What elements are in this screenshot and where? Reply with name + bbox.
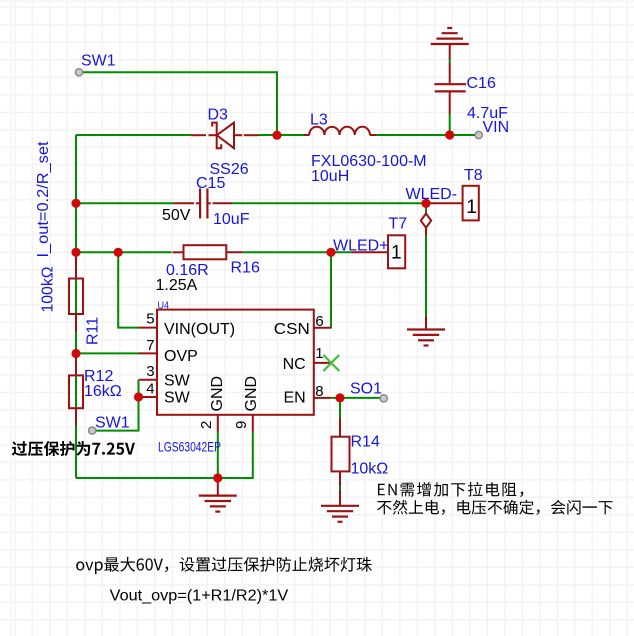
- svg-text:5: 5: [146, 311, 154, 328]
- annotation EN pulldown line1: [378, 482, 523, 497]
- pin stub below R11: [75, 314, 77, 332]
- svg-text:100kΩ: 100kΩ: [40, 266, 57, 312]
- port dot port VIN: [475, 131, 482, 138]
- wire pin2 to ground node: [217, 432, 219, 478]
- inductor L3: [309, 127, 370, 135]
- resistor R12: [69, 375, 83, 408]
- svg-text:9: 9: [233, 421, 250, 429]
- pin R14 top: [339, 418, 341, 437]
- wire EN node down to R14: [339, 398, 341, 419]
- pin D3 left (cathode side): [191, 134, 206, 136]
- svg-text:GND: GND: [243, 376, 260, 412]
- wire C15 net from left rail: [76, 202, 174, 204]
- svg-text:R14: R14: [351, 434, 380, 451]
- pin 2 GND stub: [217, 415, 219, 432]
- junction node VIN(OUT) tap: [114, 248, 123, 257]
- wire WLED- node down to diamond: [425, 203, 427, 213]
- svg-text:C16: C16: [467, 75, 496, 92]
- svg-text:VIN(OUT): VIN(OUT): [164, 321, 235, 338]
- wire SW1 net: from port SW1 right then down to diode node: [79, 72, 277, 135]
- pin C15 left: [174, 202, 195, 204]
- pin 7 OVP: [139, 352, 158, 354]
- svg-text:LGS63042EP: LGS63042EP: [158, 439, 221, 455]
- junction node OVP tap: [71, 349, 80, 358]
- svg-text:Vout_ovp=(1+R1/R2)*1V: Vout_ovp=(1+R1/R2)*1V: [110, 588, 289, 605]
- svg-text:1: 1: [391, 243, 402, 264]
- wire C15 to WLED- node: [232, 202, 426, 204]
- annotation ovp max 60V: [76, 557, 372, 574]
- ground (WLED- branch): [407, 330, 445, 346]
- svg-text:EN: EN: [283, 390, 305, 407]
- annotation EN pulldown line2: [377, 500, 612, 515]
- svg-text:4: 4: [146, 381, 154, 398]
- wire WLED+ node down to CSN pin: [330, 252, 332, 327]
- capacitor C15: [200, 188, 207, 218]
- svg-text:I_out=0.2/R_set: I_out=0.2/R_set: [35, 141, 52, 258]
- svg-text:10uH: 10uH: [311, 168, 349, 185]
- wire OVP from divider tap: [76, 352, 140, 354]
- wire R16 net from left rail: [76, 251, 172, 253]
- pin 5 VIN(OUT): [139, 327, 158, 329]
- junction node GND return: [213, 473, 222, 482]
- port dot port SW1 top: [75, 69, 82, 76]
- svg-text:WLED-: WLED-: [406, 186, 458, 203]
- wire from left rail to D3 anode: [76, 134, 191, 136]
- wire node to L3 left pin: [277, 134, 304, 136]
- wire VIN(OUT) branch from R16 net: [118, 252, 139, 327]
- junction node left rail/C15: [71, 199, 80, 208]
- svg-text:1.25A: 1.25A: [156, 277, 198, 294]
- pin R16 left: [173, 251, 184, 253]
- port dot port SO1: [380, 395, 387, 402]
- wire EN node to SO1 port: [331, 397, 384, 399]
- svg-text:L3: L3: [310, 111, 328, 128]
- no-connect X on pin 1: [323, 355, 339, 371]
- earth ground (top, flipped): [431, 28, 469, 44]
- svg-text:50V: 50V: [162, 207, 191, 224]
- wire C16 lower pin to VIN node (green part): [449, 113, 451, 135]
- svg-text:U4: U4: [158, 300, 170, 311]
- IC U4 LGS63042EP body: [157, 310, 314, 415]
- pin L3 left: [304, 134, 310, 136]
- svg-text:WLED+: WLED+: [333, 237, 389, 254]
- svg-text:1: 1: [315, 345, 323, 362]
- junction node VIN/C16: [445, 130, 454, 139]
- pin 8 EN: [314, 397, 331, 399]
- test point T7: [388, 235, 405, 268]
- pin R14 bottom: [339, 471, 341, 486]
- junction node WLED+/CSN: [326, 248, 335, 257]
- pin 3 SW: [139, 379, 158, 381]
- wire L3 right pin to VIN port: [376, 134, 479, 136]
- svg-text:R16: R16: [231, 260, 260, 277]
- ground (R14): [321, 506, 359, 522]
- svg-text:SW1: SW1: [95, 415, 130, 432]
- pin 6 CSN: [314, 327, 332, 329]
- svg-text:OVP: OVP: [164, 348, 198, 365]
- wire bottom-left return rail: [76, 477, 218, 479]
- pin D3 right: [234, 134, 242, 136]
- pin C16 top: [449, 63, 451, 84]
- svg-text:SO1: SO1: [350, 381, 382, 398]
- diode D3 (Schottky SS26): [212, 122, 234, 150]
- resistor R14: [332, 437, 350, 472]
- wire diamond down to ground: [425, 236, 427, 316]
- annotation OVP is 7.25V (bold): [12, 441, 135, 456]
- svg-text:3: 3: [146, 363, 154, 380]
- resistor R11: [69, 279, 83, 315]
- svg-text:SW: SW: [164, 373, 191, 390]
- svg-text:C15: C15: [196, 175, 225, 192]
- svg-text:16kΩ: 16kΩ: [84, 383, 122, 400]
- svg-text:T8: T8: [464, 167, 483, 184]
- svg-text:GND: GND: [209, 376, 226, 412]
- pin stub above R12: [75, 357, 77, 376]
- left vertical rail x=76: [75, 135, 77, 478]
- svg-text:T7: T7: [389, 216, 408, 233]
- pin ground stem (WLED- branch): [425, 316, 427, 330]
- svg-text:CSN: CSN: [274, 321, 310, 338]
- pin 4 SW: [139, 396, 158, 398]
- pin T7 connector: [352, 251, 388, 253]
- pin 1 NC stub: [314, 362, 332, 364]
- ground (U4 GND): [199, 496, 237, 512]
- svg-text:D3: D3: [208, 107, 229, 124]
- svg-text:1: 1: [466, 197, 477, 218]
- pin R16 right: [226, 251, 242, 253]
- wire D3 cathode to L3 node: [259, 134, 278, 136]
- svg-text:R11: R11: [84, 317, 101, 345]
- pin stub below R12: [75, 408, 77, 425]
- junction node D3/L3/SW1: [272, 131, 281, 140]
- svg-text:VIN: VIN: [483, 119, 510, 136]
- wire C16 to earth (green dash): [449, 59, 451, 64]
- diamond (LED string marker): [421, 214, 431, 228]
- svg-text:8: 8: [315, 383, 323, 400]
- svg-text:6: 6: [315, 313, 323, 330]
- pin below diamond: [425, 228, 427, 236]
- svg-text:SW1: SW1: [81, 53, 116, 70]
- pin 9 GND stub: [252, 415, 254, 432]
- pin C15 right: [208, 202, 210, 204]
- pin T8 connector: [426, 202, 463, 204]
- svg-text:7: 7: [146, 337, 154, 354]
- port dot port SW1 bottom: [89, 427, 96, 434]
- pin ground stem (R14): [339, 490, 341, 506]
- pin earth stem top: [449, 44, 451, 59]
- svg-text:10kΩ: 10kΩ: [351, 461, 389, 478]
- wire SW1 bottom net: [92, 380, 138, 431]
- pin C16 bottom: [449, 92, 451, 113]
- junction node SW pin4: [134, 392, 143, 401]
- wire R14 to ground (green dash): [339, 486, 341, 491]
- capacitor C16: [434, 84, 466, 91]
- svg-text:2: 2: [198, 421, 215, 429]
- wire R16 to WLED+ node: [242, 251, 352, 253]
- svg-text:10uF: 10uF: [213, 211, 250, 228]
- pin L3 right: [370, 134, 376, 136]
- pin stub above R11: [75, 252, 77, 278]
- resistor R16: [184, 245, 227, 259]
- pin ground stem (U4 GND): [217, 478, 219, 496]
- junction node EN/R14: [335, 393, 344, 402]
- svg-text:SW: SW: [164, 390, 191, 407]
- test point T8: [463, 186, 479, 221]
- junction node WLED-: [421, 199, 430, 208]
- junction node left rail/R16: [71, 248, 80, 257]
- wire pin9 down and left to ground node: [218, 432, 253, 478]
- svg-text:NC: NC: [283, 356, 306, 373]
